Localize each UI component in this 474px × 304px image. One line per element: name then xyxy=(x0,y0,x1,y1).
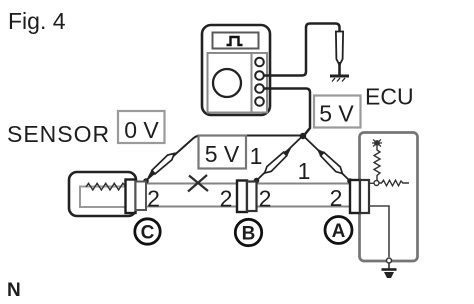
svg-text:2: 2 xyxy=(330,185,343,211)
svg-text:SENSOR: SENSOR xyxy=(7,121,110,147)
wire 1 branch from junction to connector A xyxy=(304,136,351,181)
wire W2 from jack3 down to splice junction xyxy=(263,89,310,137)
connector A half 1 xyxy=(350,180,360,213)
circled A xyxy=(325,217,352,244)
svg-text:2: 2 xyxy=(220,186,233,212)
circled B xyxy=(235,219,261,245)
wire W1 from jack2 to top probe xyxy=(263,24,340,76)
svg-text:1: 1 xyxy=(298,158,311,184)
multimeter M1 body xyxy=(202,25,270,115)
svg-text:2: 2 xyxy=(147,186,160,212)
svg-text:C: C xyxy=(141,223,155,244)
harness wire bottom (C to A) xyxy=(146,206,350,208)
connector C half 2 xyxy=(136,182,147,211)
connector A half 2 xyxy=(360,180,369,213)
test probe P1 (vertical, at ECU 5V terminal) xyxy=(330,32,349,82)
wire from connector A to ground xyxy=(369,206,389,257)
node dot at connector B xyxy=(254,178,260,184)
wire 1 from junction to connector C (over 5V label box) xyxy=(146,136,303,181)
value box 5 V (wire 1) xyxy=(199,136,247,169)
ECU internal: supply node xyxy=(372,140,382,147)
svg-text:5 V: 5 V xyxy=(319,101,354,127)
test probe P3 on wire to B (tip toward junction) xyxy=(262,146,293,175)
sensor resistive element zigzag xyxy=(86,183,127,190)
jack column divider xyxy=(251,54,253,112)
multimeter display window xyxy=(213,33,259,49)
harness wire top (C to A) xyxy=(146,183,350,185)
svg-text:1: 1 xyxy=(250,143,263,169)
splice junction node xyxy=(300,133,306,139)
circled C xyxy=(135,219,160,244)
wire 1 branch from junction to connector B xyxy=(257,136,303,181)
jack 3 xyxy=(255,84,264,93)
jack 1 xyxy=(255,58,264,67)
sensor inner frame xyxy=(80,187,129,208)
svg-text:5 V: 5 V xyxy=(205,141,240,167)
test probe P4 on wire to A (tip toward junction) xyxy=(314,146,344,176)
value box 5 V (ECU) xyxy=(314,96,361,128)
jack 4 xyxy=(255,97,264,106)
open-circuit X mark on wire 2 xyxy=(188,175,208,192)
value box 0 V xyxy=(118,111,165,143)
jack 2 xyxy=(255,71,264,80)
node dot at connector A xyxy=(347,178,353,184)
connector B half 1 xyxy=(237,181,247,213)
connector C half 1 xyxy=(126,180,136,214)
ECU box xyxy=(360,133,418,262)
svg-text:N: N xyxy=(7,280,21,301)
svg-text:Fig. 4: Fig. 4 xyxy=(8,8,66,34)
node dot at connector C xyxy=(143,178,149,184)
multimeter front panel xyxy=(208,53,268,113)
resistor R2 (horizontal) xyxy=(379,180,409,186)
test probe P2 at connector C xyxy=(145,151,176,180)
sensor body xyxy=(69,172,136,216)
svg-text:0 V: 0 V xyxy=(124,117,159,143)
wire from connector A pin to node xyxy=(369,182,374,184)
svg-text:2: 2 xyxy=(259,186,272,212)
ground G1 xyxy=(382,264,397,279)
pulse symbol in display xyxy=(227,37,243,45)
svg-text:A: A xyxy=(332,221,346,242)
svg-text:B: B xyxy=(242,224,256,245)
connector B half 2 xyxy=(247,182,257,212)
node on ECU bottom edge xyxy=(387,258,392,263)
node (pin 2 of A inside ECU) xyxy=(374,181,379,186)
svg-text:ECU: ECU xyxy=(365,84,414,110)
dial xyxy=(213,69,241,97)
resistor R1 (vertical pull-up) xyxy=(374,146,380,180)
